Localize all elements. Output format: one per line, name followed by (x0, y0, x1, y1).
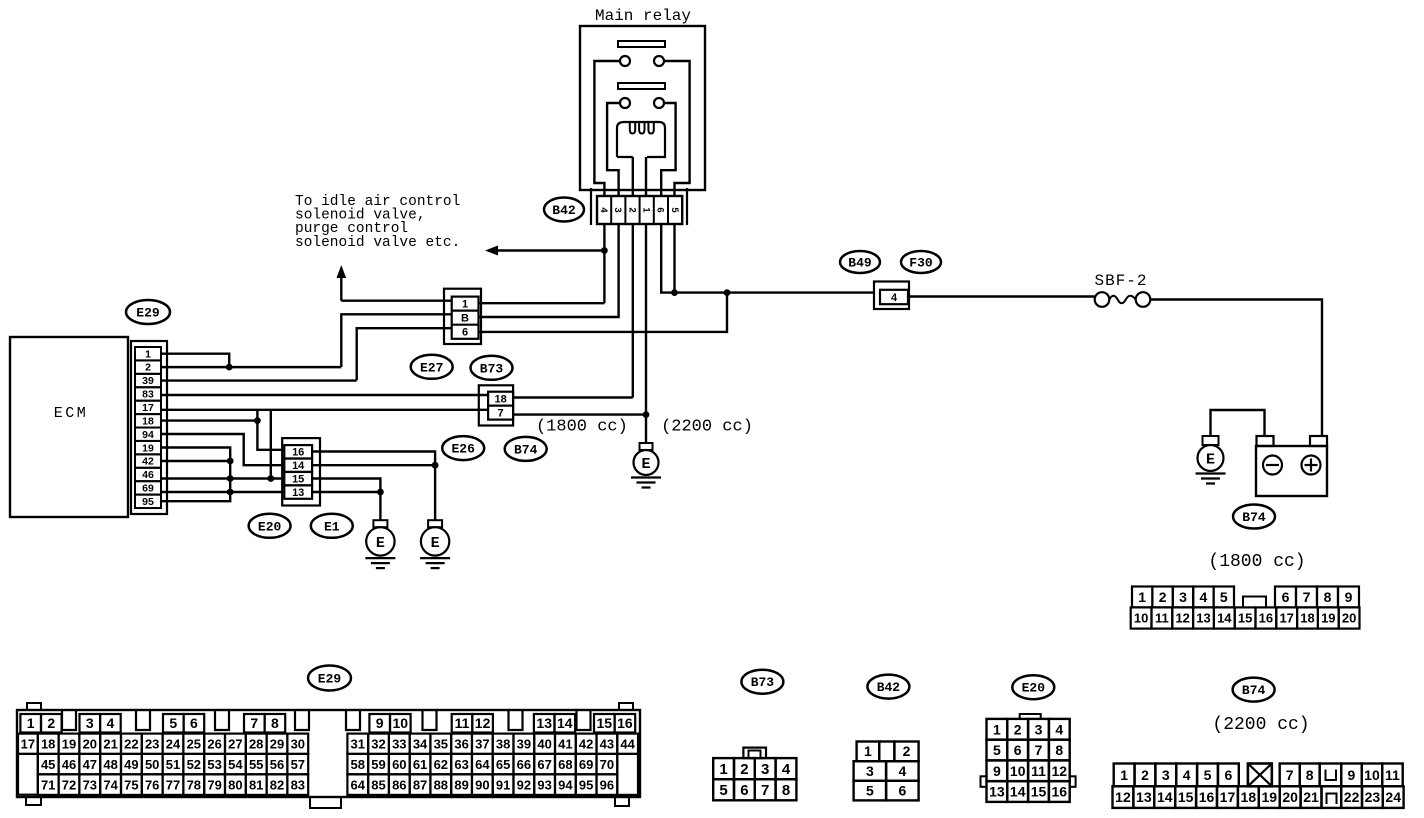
svg-text:4: 4 (598, 207, 609, 213)
svg-text:9: 9 (376, 715, 384, 731)
svg-text:11: 11 (1155, 611, 1169, 626)
svg-text:95: 95 (142, 496, 154, 508)
svg-text:40: 40 (537, 736, 551, 751)
svg-text:16: 16 (1259, 611, 1273, 626)
svg-text:5: 5 (169, 715, 177, 731)
svg-text:22: 22 (124, 736, 138, 751)
svg-text:3: 3 (1179, 589, 1187, 605)
svg-text:68: 68 (558, 757, 572, 772)
svg-text:13: 13 (989, 784, 1005, 800)
svg-text:16: 16 (617, 715, 633, 731)
svg-text:7: 7 (1035, 742, 1043, 758)
svg-text:25: 25 (187, 736, 201, 751)
svg-text:8: 8 (1306, 767, 1314, 783)
svg-text:F30: F30 (909, 256, 933, 271)
svg-text:21: 21 (103, 736, 117, 751)
svg-text:57: 57 (291, 757, 305, 772)
svg-text:2: 2 (1014, 721, 1022, 737)
svg-text:66: 66 (517, 757, 531, 772)
svg-text:44: 44 (620, 736, 635, 751)
svg-text:78: 78 (187, 777, 201, 792)
svg-text:37: 37 (475, 736, 489, 751)
svg-text:3: 3 (1035, 721, 1043, 737)
svg-text:1: 1 (641, 207, 652, 213)
svg-text:SBF-2: SBF-2 (1094, 272, 1147, 290)
svg-text:34: 34 (413, 736, 428, 751)
svg-text:(1800 cc): (1800 cc) (536, 418, 628, 437)
svg-text:B74: B74 (1242, 683, 1266, 698)
svg-text:E29: E29 (136, 306, 160, 321)
svg-text:18: 18 (142, 415, 154, 427)
svg-text:4: 4 (891, 292, 898, 304)
svg-text:4: 4 (107, 715, 115, 731)
svg-text:18: 18 (1300, 611, 1314, 626)
svg-text:7: 7 (498, 407, 504, 419)
svg-text:11: 11 (1385, 767, 1400, 783)
svg-text:27: 27 (228, 736, 242, 751)
svg-text:14: 14 (1217, 611, 1232, 626)
svg-text:4: 4 (782, 761, 791, 778)
svg-text:B73: B73 (480, 361, 504, 376)
svg-text:17: 17 (21, 736, 35, 751)
svg-text:76: 76 (145, 777, 159, 792)
svg-text:67: 67 (537, 757, 551, 772)
svg-text:38: 38 (496, 736, 510, 751)
svg-text:52: 52 (187, 757, 201, 772)
svg-text:20: 20 (1342, 611, 1356, 626)
svg-text:47: 47 (83, 757, 97, 772)
svg-text:24: 24 (166, 736, 181, 751)
svg-text:3: 3 (86, 715, 94, 731)
svg-text:B49: B49 (848, 256, 872, 271)
svg-text:Main relay: Main relay (595, 7, 691, 25)
svg-text:E: E (641, 456, 650, 473)
svg-text:B74: B74 (514, 442, 538, 457)
svg-text:21: 21 (1303, 789, 1319, 805)
svg-text:E1: E1 (324, 519, 340, 534)
svg-text:14: 14 (1010, 784, 1026, 800)
svg-text:95: 95 (579, 777, 593, 792)
svg-text:5: 5 (1220, 589, 1228, 605)
svg-text:(2200 cc): (2200 cc) (1212, 715, 1309, 735)
svg-text:1: 1 (462, 298, 468, 310)
svg-text:94: 94 (558, 777, 573, 792)
svg-text:7: 7 (1303, 589, 1311, 605)
svg-text:E20: E20 (1022, 681, 1046, 696)
svg-text:5: 5 (719, 782, 727, 799)
svg-text:16: 16 (1052, 784, 1068, 800)
svg-text:20: 20 (1282, 789, 1298, 805)
svg-text:E20: E20 (258, 519, 282, 534)
svg-text:17: 17 (1279, 611, 1293, 626)
svg-text:90: 90 (475, 777, 489, 792)
svg-text:35: 35 (434, 736, 448, 751)
svg-text:19: 19 (62, 736, 76, 751)
svg-text:83: 83 (291, 777, 305, 792)
svg-text:3: 3 (866, 763, 874, 779)
svg-text:79: 79 (207, 777, 221, 792)
svg-text:42: 42 (579, 736, 593, 751)
svg-text:64: 64 (475, 757, 490, 772)
svg-text:28: 28 (249, 736, 263, 751)
svg-text:87: 87 (413, 777, 427, 792)
svg-text:2: 2 (145, 362, 151, 374)
svg-text:81: 81 (249, 777, 263, 792)
svg-text:18: 18 (494, 394, 506, 406)
svg-text:92: 92 (517, 777, 531, 792)
svg-text:2: 2 (626, 207, 637, 212)
svg-text:7: 7 (761, 782, 769, 799)
svg-text:2: 2 (1159, 589, 1167, 605)
svg-text:65: 65 (496, 757, 510, 772)
svg-text:19: 19 (1261, 789, 1277, 805)
svg-text:88: 88 (434, 777, 448, 792)
svg-text:E26: E26 (451, 442, 475, 457)
svg-text:55: 55 (249, 757, 263, 772)
svg-text:10: 10 (1134, 611, 1148, 626)
svg-text:62: 62 (434, 757, 448, 772)
svg-text:8: 8 (271, 715, 279, 731)
svg-text:63: 63 (454, 757, 468, 772)
svg-text:11: 11 (1031, 763, 1046, 779)
svg-text:39: 39 (142, 375, 154, 387)
svg-text:solenoid valve etc.: solenoid valve etc. (295, 235, 460, 251)
svg-text:10: 10 (1364, 767, 1380, 783)
svg-text:22: 22 (1344, 789, 1360, 805)
svg-text:19: 19 (1321, 611, 1335, 626)
svg-text:14: 14 (557, 715, 573, 731)
svg-text:13: 13 (1136, 789, 1152, 805)
svg-text:(1800 cc): (1800 cc) (1208, 552, 1305, 572)
svg-text:20: 20 (83, 736, 97, 751)
svg-text:82: 82 (270, 777, 284, 792)
svg-text:59: 59 (371, 757, 385, 772)
svg-text:6: 6 (190, 715, 198, 731)
svg-text:3: 3 (761, 761, 769, 778)
svg-text:23: 23 (145, 736, 159, 751)
svg-text:8: 8 (1324, 589, 1332, 605)
svg-text:75: 75 (124, 777, 138, 792)
svg-text:6: 6 (740, 782, 748, 799)
svg-text:54: 54 (228, 757, 243, 772)
svg-text:18: 18 (41, 736, 55, 751)
svg-text:E29: E29 (318, 672, 342, 687)
svg-text:B42: B42 (877, 680, 901, 695)
svg-text:26: 26 (207, 736, 221, 751)
svg-text:17: 17 (1220, 789, 1236, 805)
svg-text:11: 11 (455, 715, 470, 731)
svg-text:93: 93 (537, 777, 551, 792)
svg-text:2: 2 (47, 715, 55, 731)
svg-text:14: 14 (292, 460, 305, 472)
svg-text:70: 70 (600, 757, 614, 772)
svg-text:6: 6 (462, 327, 468, 339)
svg-text:94: 94 (142, 429, 154, 441)
svg-text:12: 12 (1115, 789, 1131, 805)
svg-text:6: 6 (898, 783, 906, 799)
svg-text:16: 16 (292, 447, 304, 459)
svg-text:33: 33 (392, 736, 406, 751)
svg-text:53: 53 (207, 757, 221, 772)
svg-text:61: 61 (413, 757, 427, 772)
svg-text:6: 6 (655, 207, 666, 212)
svg-text:B74: B74 (1242, 510, 1266, 525)
svg-text:74: 74 (103, 777, 118, 792)
svg-text:1: 1 (993, 721, 1001, 737)
svg-text:96: 96 (600, 777, 614, 792)
svg-text:15: 15 (1238, 611, 1252, 626)
svg-text:2: 2 (1141, 767, 1149, 783)
svg-text:6: 6 (1014, 742, 1022, 758)
svg-text:5: 5 (1204, 767, 1212, 783)
svg-text:4: 4 (1200, 589, 1208, 605)
svg-text:50: 50 (145, 757, 159, 772)
svg-text:72: 72 (62, 777, 76, 792)
svg-text:19: 19 (142, 442, 154, 454)
svg-text:73: 73 (83, 777, 97, 792)
svg-text:10: 10 (1010, 763, 1026, 779)
svg-text:E: E (376, 535, 385, 552)
svg-text:2: 2 (903, 743, 911, 759)
svg-text:8: 8 (782, 782, 790, 799)
svg-text:30: 30 (291, 736, 305, 751)
svg-text:15: 15 (1178, 789, 1194, 805)
svg-text:15: 15 (1031, 784, 1047, 800)
svg-text:17: 17 (142, 402, 154, 414)
svg-text:(2200 cc): (2200 cc) (661, 418, 753, 437)
svg-text:51: 51 (166, 757, 180, 772)
svg-text:1: 1 (1120, 767, 1128, 783)
svg-text:29: 29 (270, 736, 284, 751)
svg-text:45: 45 (41, 757, 55, 772)
svg-text:12: 12 (1052, 763, 1068, 779)
svg-text:43: 43 (600, 736, 614, 751)
svg-text:4: 4 (898, 763, 906, 779)
svg-text:5: 5 (993, 742, 1001, 758)
svg-text:9: 9 (1345, 589, 1353, 605)
svg-text:69: 69 (579, 757, 593, 772)
svg-text:41: 41 (558, 736, 572, 751)
svg-text:89: 89 (454, 777, 468, 792)
svg-text:10: 10 (393, 715, 409, 731)
svg-text:64: 64 (351, 777, 366, 792)
svg-text:31: 31 (351, 736, 365, 751)
svg-text:23: 23 (1365, 789, 1381, 805)
svg-text:16: 16 (1199, 789, 1215, 805)
svg-text:12: 12 (475, 715, 491, 731)
svg-text:1: 1 (145, 348, 151, 360)
svg-text:E: E (431, 535, 440, 552)
svg-text:E: E (1206, 452, 1215, 469)
svg-text:1: 1 (864, 743, 872, 759)
svg-text:49: 49 (124, 757, 138, 772)
svg-text:46: 46 (142, 469, 154, 481)
svg-text:7: 7 (250, 715, 258, 731)
svg-text:18: 18 (1241, 789, 1257, 805)
svg-text:13: 13 (1196, 611, 1210, 626)
svg-text:ECM: ECM (54, 405, 89, 422)
svg-text:77: 77 (166, 777, 180, 792)
svg-text:24: 24 (1385, 789, 1401, 805)
svg-text:1: 1 (719, 761, 727, 778)
svg-text:91: 91 (496, 777, 510, 792)
svg-text:6: 6 (1224, 767, 1232, 783)
svg-text:2: 2 (740, 761, 748, 778)
svg-text:B42: B42 (552, 203, 576, 218)
svg-text:56: 56 (270, 757, 284, 772)
svg-text:42: 42 (142, 456, 154, 468)
svg-text:13: 13 (292, 487, 304, 499)
svg-text:80: 80 (228, 777, 242, 792)
svg-text:36: 36 (454, 736, 468, 751)
svg-text:7: 7 (1286, 767, 1294, 783)
svg-text:1: 1 (1138, 589, 1146, 605)
svg-text:12: 12 (1175, 611, 1189, 626)
svg-text:B73: B73 (751, 675, 775, 690)
svg-text:32: 32 (371, 736, 385, 751)
svg-text:3: 3 (612, 207, 623, 212)
svg-text:14: 14 (1157, 789, 1173, 805)
svg-text:8: 8 (1055, 742, 1063, 758)
svg-text:15: 15 (597, 715, 613, 731)
svg-text:E27: E27 (420, 360, 443, 375)
svg-text:5: 5 (866, 783, 874, 799)
svg-text:46: 46 (62, 757, 76, 772)
svg-text:9: 9 (993, 763, 1001, 779)
svg-text:13: 13 (536, 715, 552, 731)
svg-text:69: 69 (142, 483, 154, 495)
svg-text:86: 86 (392, 777, 406, 792)
svg-text:4: 4 (1183, 767, 1191, 783)
svg-text:58: 58 (351, 757, 365, 772)
svg-text:3: 3 (1162, 767, 1170, 783)
svg-text:B: B (461, 312, 469, 324)
svg-text:1: 1 (27, 715, 35, 731)
svg-text:83: 83 (142, 389, 154, 401)
svg-text:48: 48 (103, 757, 117, 772)
svg-text:9: 9 (1348, 767, 1356, 783)
svg-text:6: 6 (1282, 589, 1290, 605)
svg-text:15: 15 (292, 473, 304, 485)
svg-text:60: 60 (392, 757, 406, 772)
svg-text:39: 39 (517, 736, 531, 751)
svg-text:5: 5 (669, 207, 680, 213)
svg-text:4: 4 (1055, 721, 1063, 737)
svg-text:85: 85 (371, 777, 385, 792)
svg-text:71: 71 (41, 777, 55, 792)
